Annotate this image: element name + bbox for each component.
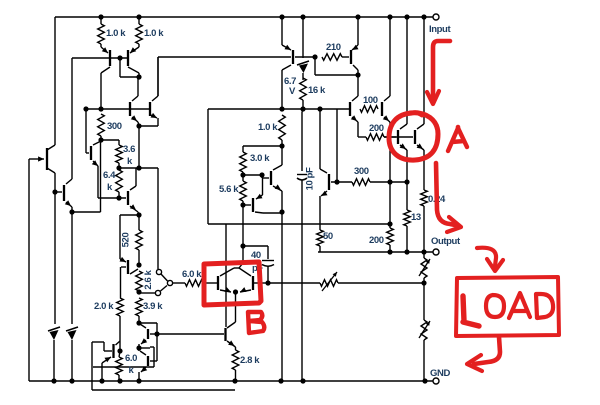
svg-text:6.0 k: 6.0 k [182,269,202,280]
svg-text:300: 300 [354,166,369,177]
svg-text:10 pF: 10 pF [305,167,316,190]
svg-text:1.0 k: 1.0 k [106,28,126,39]
svg-text:3.0 k: 3.0 k [250,153,270,164]
svg-text:1.0 k: 1.0 k [144,28,164,39]
svg-text:Input: Input [429,24,451,35]
svg-text:40: 40 [251,250,261,261]
svg-text:GND: GND [430,368,450,379]
svg-text:210: 210 [326,42,341,53]
svg-text:200: 200 [369,235,384,246]
svg-text:3.9 k: 3.9 k [143,301,163,312]
svg-text:100: 100 [363,95,378,106]
svg-text:6.4: 6.4 [103,170,116,181]
svg-text:2.0 k: 2.0 k [94,301,114,312]
svg-text:200: 200 [369,123,384,134]
svg-text:6.0: 6.0 [125,353,137,364]
svg-text:Output: Output [431,236,461,247]
svg-text:50: 50 [323,231,333,242]
svg-text:300: 300 [107,121,122,132]
svg-text:5.6 k: 5.6 k [219,184,239,195]
svg-text:520: 520 [121,233,132,248]
svg-text:1.0 k: 1.0 k [258,122,278,133]
svg-text:16 k: 16 k [308,85,326,96]
svg-text:2.6 k: 2.6 k [143,269,154,289]
svg-text:3.6: 3.6 [123,144,135,155]
svg-text:13: 13 [411,212,421,223]
svg-text:2.8 k: 2.8 k [240,355,260,366]
